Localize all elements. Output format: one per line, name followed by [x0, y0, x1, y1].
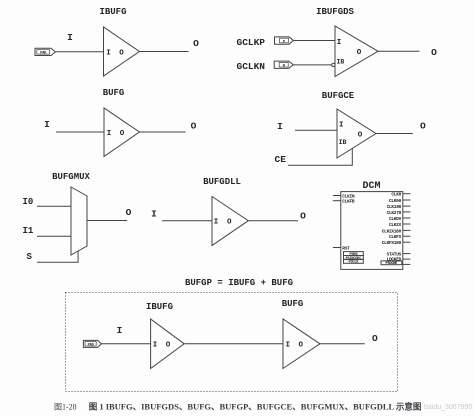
figure caption main text — [89, 402, 422, 412]
pin I (BUFG) — [107, 130, 112, 138]
pin stub LOCKED — [403, 258, 411, 260]
svg-text:CLKDV: CLKDV — [389, 216, 402, 222]
svg-text:I: I — [107, 130, 112, 138]
pin O (BUFGDLL) — [227, 219, 232, 227]
svg-text:I1: I1 — [23, 226, 34, 236]
svg-text:RST: RST — [342, 245, 350, 251]
pin I (inner IBUFG) — [153, 342, 158, 350]
pin stub RST — [333, 247, 341, 249]
buffer triangle IBUFGDS — [335, 26, 378, 77]
svg-text:baidu_3067990: baidu_3067990 — [424, 404, 472, 411]
svg-text:图 1 IBUFG、IBUFGDS、BUFG、BUFGP、B: 图 1 IBUFG、IBUFGDS、BUFG、BUFGP、BUFGCE、BUFG… — [89, 402, 422, 412]
boxed pin label PSDONE — [381, 261, 402, 266]
wire PAD to IBUFG input — [55, 51, 103, 53]
svg-text:O: O — [120, 130, 125, 138]
pad symbol N — [274, 61, 293, 68]
wire inner IBUFG to inner BUFG — [184, 343, 283, 345]
svg-text:I: I — [339, 121, 344, 129]
svg-text:I: I — [67, 32, 73, 43]
svg-text:PAD: PAD — [40, 51, 47, 55]
node I1 label — [23, 226, 34, 236]
mux BUFGMUX label — [52, 172, 90, 182]
pin label CLKDV — [389, 216, 402, 222]
svg-text:IBUFG: IBUFG — [146, 302, 173, 312]
svg-text:IBUFG: IBUFG — [99, 7, 126, 17]
buffer triangle BUFGCE — [337, 109, 376, 158]
wire IBUFGDS output — [378, 50, 420, 52]
buffer IBUFG (top-left) label — [99, 7, 126, 17]
boxed pin label PSCLK — [344, 259, 364, 264]
svg-text:PSDONE: PSDONE — [386, 262, 399, 266]
buffer triangle IBUFG (inside BUFGP) — [151, 319, 185, 369]
pin stub CLKFX — [403, 235, 411, 237]
svg-text:CLKFX180: CLKFX180 — [382, 240, 402, 246]
inversion bubble on IB pin — [332, 63, 335, 66]
svg-text:CLKFX: CLKFX — [389, 234, 402, 240]
wire GCLKN to IBUFGDS pin IB — [293, 64, 332, 66]
pin stub CLKIN — [333, 195, 341, 197]
svg-text:I: I — [106, 49, 111, 57]
pin IB (IBUFGDS) — [337, 58, 345, 65]
svg-text:CLK0: CLK0 — [391, 192, 401, 198]
svg-text:I: I — [44, 119, 50, 130]
wire S to BUFGMUX bottom edge — [37, 251, 78, 262]
node O label (BUFGCE output) — [420, 120, 426, 131]
node I label (BUFG input) — [44, 119, 50, 130]
svg-text:DCM: DCM — [362, 181, 380, 192]
pin I (IBUFG) — [106, 49, 111, 57]
pin label LOCKED — [387, 256, 402, 262]
equation title BUFGP = IBUFG + BUFG — [185, 278, 293, 288]
pin stub CLKDV — [403, 217, 411, 219]
pin O (BUFG) — [120, 130, 125, 138]
svg-text:CLKFB: CLKFB — [342, 199, 355, 205]
node GCLKP label — [237, 37, 266, 48]
pin stub PSDONE — [403, 263, 411, 265]
node I label (BUFGDLL input) — [151, 208, 157, 219]
pin O (IBUFGDS) — [357, 49, 362, 57]
svg-text:CLK2X: CLK2X — [389, 222, 402, 228]
svg-text:O: O — [119, 49, 124, 57]
svg-text:I: I — [117, 325, 123, 336]
buffer triangle BUFGDLL — [212, 197, 248, 246]
buffer BUFGCE (row2 right) label — [322, 91, 355, 101]
svg-text:CLK2X180: CLK2X180 — [382, 228, 402, 234]
svg-text:CLKIN: CLKIN — [342, 193, 355, 199]
pin label RST — [342, 245, 350, 251]
watermark — [424, 404, 472, 411]
svg-text:BUFGMUX: BUFGMUX — [52, 172, 90, 182]
buffer IBUFG (inside BUFGP) label — [146, 302, 173, 312]
pad symbol PAD (BUFGP input) — [83, 340, 101, 347]
wire CE to BUFGCE bottom edge — [288, 148, 352, 165]
svg-text:BUFGDLL: BUFGDLL — [203, 177, 241, 187]
wire IBUFG output — [140, 51, 189, 53]
pin O (inner IBUFG) — [166, 342, 171, 350]
svg-text:O: O — [358, 131, 363, 139]
buffer triangle BUFG — [104, 108, 140, 157]
DCM block body — [341, 192, 403, 270]
pin label CLK2X180 — [382, 228, 402, 234]
op-amp style buffer triangle IBUFG — [104, 27, 140, 76]
svg-text:O: O — [126, 207, 132, 218]
svg-text:I: I — [286, 342, 291, 350]
pin stub STATUS — [403, 253, 411, 255]
svg-text:BUFG: BUFG — [282, 299, 304, 309]
node O label (BUFGDLL output) — [300, 210, 306, 221]
node S label — [27, 252, 33, 262]
svg-text:IBUFGDS: IBUFGDS — [316, 7, 354, 17]
buffer BUFG (row2 left) label — [103, 88, 125, 98]
pin stub CLK180 — [403, 205, 411, 207]
pin I (IBUFGDS) — [337, 39, 342, 47]
svg-text:CLK180: CLK180 — [387, 204, 402, 210]
pin label CLKFX180 — [382, 240, 402, 246]
node O label (BUFG output) — [191, 120, 197, 131]
mux trapezoid BUFGMUX — [71, 187, 87, 255]
pin O (BUFGCE) — [358, 131, 363, 139]
figure caption 图1-28 — [54, 403, 77, 412]
dashed enclosure box BUFGP — [66, 293, 398, 392]
svg-text:O: O — [431, 47, 437, 58]
svg-text:CLK90: CLK90 — [389, 198, 402, 204]
wire BUFGMUX output — [87, 220, 127, 222]
pin stub CLKFB — [333, 200, 341, 202]
node GCLKN label — [237, 61, 266, 72]
pin I (inner BUFG) — [286, 342, 291, 350]
wire BUFG input — [56, 131, 104, 133]
pin stub CLK270 — [403, 211, 411, 213]
pin O (IBUFG) — [119, 49, 124, 57]
pin label CLK180 — [387, 204, 402, 210]
node I label (BUFGCE input) — [277, 121, 283, 132]
wire BUFGDLL output — [248, 220, 298, 222]
svg-text:P: P — [283, 40, 285, 44]
node I label (BUFGP input) — [117, 325, 123, 336]
pin stub CLK2X180 — [403, 229, 411, 231]
wire BUFGCE output — [376, 133, 413, 135]
wire GCLKP to IBUFGDS pin I — [294, 40, 336, 42]
pin stub CLKFX180 — [403, 241, 411, 243]
wire BUFGCE input — [295, 129, 337, 131]
svg-text:O: O — [193, 38, 199, 49]
wire BUFGDLL input — [162, 220, 212, 222]
pin I (BUFGCE) — [339, 121, 344, 129]
node O label (BUFGMUX output) — [126, 207, 132, 218]
svg-text:IB: IB — [339, 139, 347, 146]
pin label STATUS — [387, 252, 402, 258]
svg-text:O: O — [300, 210, 306, 221]
pin I (BUFGDLL) — [214, 219, 219, 227]
svg-text:图1-28: 图1-28 — [54, 403, 77, 412]
svg-text:PAD: PAD — [88, 343, 95, 347]
node CE label — [275, 154, 287, 165]
svg-text:S: S — [27, 252, 33, 262]
svg-text:CLK270: CLK270 — [387, 210, 402, 216]
pin label CLKFB — [342, 199, 355, 205]
wire I1 input — [37, 235, 71, 237]
node I label (IBUFG input) — [67, 32, 73, 43]
pin stub CLK90 — [403, 199, 411, 201]
node I0 label — [23, 197, 34, 207]
pin label CLKIN — [342, 193, 355, 199]
buffer BUFGDLL label — [203, 177, 241, 187]
pin IB (BUFGCE) — [339, 139, 347, 146]
node O label (IBUFGDS output) — [431, 47, 437, 58]
svg-text:GCLKN: GCLKN — [237, 61, 266, 72]
svg-text:I: I — [214, 219, 219, 227]
boxed pin label PSEN — [344, 252, 364, 257]
svg-text:GCLKP: GCLKP — [237, 37, 266, 48]
wire PAD to inner IBUFG — [102, 343, 151, 345]
svg-text:I0: I0 — [23, 197, 34, 207]
svg-text:N: N — [283, 65, 285, 69]
pad symbol P — [275, 37, 294, 44]
pin label CLK2X — [389, 222, 402, 228]
boxed pin label PSINCDEC — [344, 256, 364, 261]
svg-text:BUFGCE: BUFGCE — [322, 91, 355, 101]
pin stub CLK0 — [403, 193, 411, 195]
buffer triangle BUFG (inside BUFGP) — [283, 319, 320, 369]
svg-text:I: I — [151, 208, 157, 219]
DCM block label — [362, 181, 380, 192]
svg-text:BUFGP = IBUFG + BUFG: BUFGP = IBUFG + BUFG — [185, 278, 293, 288]
svg-text:I: I — [337, 39, 342, 47]
svg-text:BUFG: BUFG — [103, 88, 125, 98]
svg-text:O: O — [166, 342, 171, 350]
wire BUFG output — [140, 131, 186, 133]
pin stub CLK2X — [403, 223, 411, 225]
pin label CLK0 — [391, 192, 401, 198]
svg-text:O: O — [420, 120, 426, 131]
svg-text:I: I — [277, 121, 283, 132]
pin O (inner BUFG) — [299, 342, 304, 350]
pin label CLK270 — [387, 210, 402, 216]
buffer IBUFGDS (top-right) label — [316, 7, 354, 17]
pin label CLK90 — [389, 198, 402, 204]
svg-text:PSCLK: PSCLK — [349, 261, 360, 265]
buffer BUFG (inside BUFGP) label — [282, 299, 304, 309]
svg-text:CE: CE — [275, 154, 287, 165]
svg-text:O: O — [372, 333, 378, 344]
node O label (BUFGP output) — [372, 333, 378, 344]
svg-text:O: O — [299, 342, 304, 350]
svg-text:O: O — [357, 49, 362, 57]
pad symbol PAD (IBUFG input) — [35, 48, 55, 55]
svg-text:IB: IB — [337, 58, 345, 65]
node O label (IBUFG output) — [193, 38, 199, 49]
pin label CLKFX — [389, 234, 402, 240]
svg-text:O: O — [191, 120, 197, 131]
wire I0 input — [37, 205, 71, 207]
wire BUFGP output — [320, 343, 365, 345]
svg-text:I: I — [153, 342, 158, 350]
svg-text:O: O — [227, 219, 232, 227]
